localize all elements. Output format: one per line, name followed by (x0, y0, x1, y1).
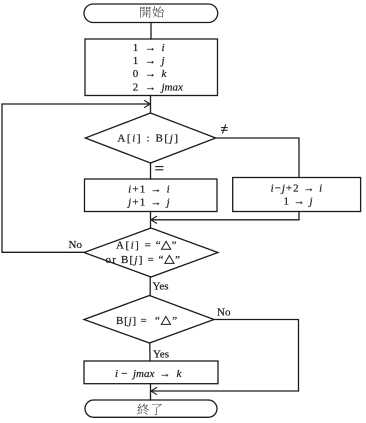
arrowhead: P3 merge pointing left (151, 216, 157, 223)
svg-text:or B[j] =: or B[j] = (106, 254, 155, 266)
wire: P3 bottom down-left to merge (151, 212, 299, 220)
terminal T1: start (84, 4, 218, 23)
symbol: triangle in D3 (161, 316, 170, 324)
svg-text:→: → (160, 368, 171, 380)
svg-text:0: 0 (133, 68, 139, 80)
wire: P2 down to decision D2 (150, 212, 152, 229)
svg-text:No: No (217, 307, 231, 319)
svg-text:→: → (145, 55, 156, 67)
kanji text: 開始 in start terminal (140, 6, 163, 18)
symbol: triangle in D2 line 1 (162, 241, 171, 249)
svg-text:1: 1 (133, 55, 139, 67)
svg-text:Yes: Yes (153, 349, 169, 361)
label: equal (155, 167, 163, 170)
wire: D3 yes down to P4 (149, 343, 151, 361)
svg-text:k: k (177, 368, 183, 380)
wire: D1 not-equal branch to P3 (216, 138, 299, 178)
svg-text:j: j (160, 55, 165, 67)
decision D1: A[i] : B[j] (85, 113, 215, 163)
svg-text:“: “ (159, 254, 164, 266)
wire: D2 yes down to decision D3 (149, 277, 151, 296)
process box P3: i-j+2, 1 (233, 178, 361, 212)
svg-text:”: ” (172, 240, 177, 252)
svg-text:i+1 → i: i+1 → i (128, 184, 171, 196)
wire: no-loop return from D2 left up to merge junction (2, 104, 150, 252)
process box P2: i+1,j+1 (85, 179, 218, 212)
svg-text:i: i (162, 42, 165, 54)
svg-text:jmax: jmax (160, 81, 184, 93)
wire: D1 equal branch down to P2 (150, 163, 152, 179)
label: not equal (221, 124, 228, 133)
svg-text:j+1 → j: j+1 → j (126, 196, 171, 208)
svg-text:−: − (121, 368, 127, 380)
kanji text: 終了 in end terminal (137, 404, 161, 415)
decision D2: A[i]=triangle or B[j]=triangle (84, 228, 218, 277)
svg-text:B[j] =: B[j] = (116, 315, 148, 327)
svg-text:k: k (162, 68, 168, 80)
wire: P4 down to terminal T2 (150, 384, 152, 400)
svg-text:→: → (145, 42, 156, 54)
svg-text:1: 1 (133, 42, 139, 54)
svg-text:”: ” (172, 315, 177, 327)
svg-text:Yes: Yes (153, 281, 169, 293)
svg-text:“: “ (155, 315, 160, 327)
svg-text:“: “ (156, 240, 161, 252)
wire: D3 no branch right and down to final merge (151, 320, 298, 392)
svg-text:1 → j: 1 → j (283, 195, 313, 207)
svg-text:”: ” (175, 254, 180, 266)
svg-text:→: → (145, 68, 156, 80)
svg-text:A[i] =: A[i] = (116, 240, 152, 252)
svg-text:No: No (69, 239, 83, 251)
svg-text:i−j+2 → i: i−j+2 → i (271, 182, 324, 194)
svg-text:2: 2 (133, 81, 139, 93)
symbol: triangle in D2 line 2 (165, 255, 174, 263)
arrowhead: loop merge pointing right (145, 101, 151, 108)
decision D3: B[j]=triangle (84, 296, 214, 344)
svg-text:jmax: jmax (131, 368, 155, 380)
wire: T1 to init box (150, 23, 152, 40)
process box P4: i-jmax to k (84, 361, 218, 384)
svg-text:A[i] : B[j]: A[i] : B[j] (117, 133, 179, 145)
arrowhead: final merge pointing left (151, 388, 157, 395)
svg-text:→: → (145, 81, 156, 93)
svg-text:i: i (115, 368, 118, 380)
wire: P1 down to decision D1 (150, 96, 152, 114)
process box P1: initialization (85, 39, 218, 96)
terminal T2: end (85, 400, 217, 417)
